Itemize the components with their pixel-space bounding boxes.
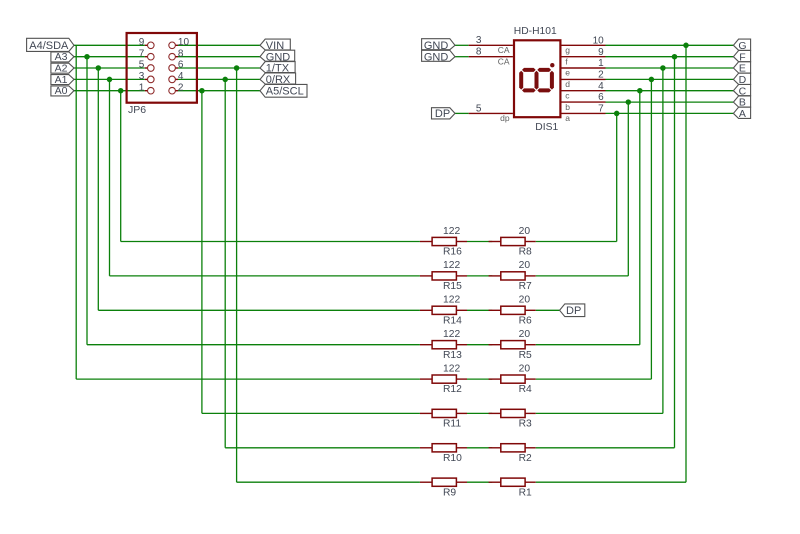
svg-text:10: 10 [593,35,605,46]
wire net E from DIS1 to label [606,67,734,69]
wire net G from DIS1 to label [606,44,734,46]
JP6 pin 10 pad [169,42,176,49]
wire net A1 vertical [109,79,111,276]
svg-text:7: 7 [598,104,604,115]
svg-text:R9: R9 [443,487,456,498]
resistor R14 left stub [420,309,432,311]
wire net A1 to resistor row [110,275,420,277]
wire net A5/SCL to resistor row [202,412,420,414]
svg-text:122: 122 [443,295,460,306]
svg-text:R15: R15 [443,281,462,292]
svg-text:R2: R2 [519,453,532,464]
JP6 pin 6 pad [169,65,176,72]
wire net 1/TX vertical [236,68,238,482]
svg-text:7: 7 [139,48,145,59]
svg-text:A1: A1 [55,74,68,86]
junction net A0 [118,88,124,94]
svg-text:R3: R3 [519,419,532,430]
svg-text:20: 20 [519,260,531,271]
JP6 pin 4 stub [175,78,178,80]
svg-text:DIS1: DIS1 [535,122,558,133]
JP6 pin 10 stub [175,44,178,46]
wire net F from DIS1 to label [606,56,734,58]
resistor R5 left stub [489,344,501,346]
resistor R6 body [501,306,525,314]
wire between resistor pair row 4 [467,344,492,346]
svg-text:d: d [565,79,570,89]
wire net C from DIS1 to label [606,90,734,92]
junction net A [614,111,620,117]
junction net A2 [96,65,102,71]
resistor R13 right stub [456,344,467,346]
resistor R3 left stub [489,412,501,414]
wire net A3 to resistor row [87,344,420,346]
resistor R10 left stub [420,447,432,449]
JP6 pin 3 pad [148,76,155,83]
wire net DP to DIS1 pin 5 [455,112,469,114]
svg-text:R14: R14 [443,315,462,326]
resistor R8 left stub [489,241,501,243]
resistor R5 right stub [525,344,536,346]
JP6 pin 1 stub [145,90,148,92]
wire net A to resistor row [536,241,617,243]
svg-text:R1: R1 [519,487,532,498]
junction net A1 [107,77,113,83]
resistor R7 left stub [489,275,501,277]
junction net E [660,65,666,71]
svg-text:A5/SCL: A5/SCL [266,85,304,97]
svg-text:10: 10 [178,37,190,48]
resistor R9 body [432,478,456,486]
svg-text:122: 122 [443,363,460,374]
junction net B [626,99,632,105]
svg-text:6: 6 [178,60,184,71]
svg-text:20: 20 [519,329,531,340]
JP6 pin 9 pad [148,42,155,49]
svg-text:g: g [565,45,570,55]
wire net GND from JP6 [178,56,260,58]
resistor R15 body [432,272,456,280]
svg-text:JP6: JP6 [128,104,146,116]
svg-text:R16: R16 [443,247,462,258]
resistor R3 right stub [525,412,536,414]
resistor R15 right stub [456,275,467,277]
wire net D from DIS1 to label [606,78,734,80]
resistor R2 body [501,444,525,452]
svg-text:4: 4 [178,71,184,82]
wire net F to resistor row [536,447,675,449]
wire net D to resistor row [536,378,652,380]
DIS1 pin 9 stub [562,56,606,58]
label A5/SCL [260,84,307,97]
junction net 0/RX [222,77,228,83]
resistor R14 right stub [456,309,467,311]
resistor R16 right stub [456,241,467,243]
JP6 pin 5 stub [145,67,148,69]
junction net D [649,77,655,83]
wire net C to resistor row [536,344,640,346]
label 0/RX [260,73,296,84]
svg-text:GND: GND [424,51,449,63]
resistor R3 body [501,409,525,417]
svg-text:3: 3 [139,71,145,82]
wire net 0/RX from JP6 [178,78,260,80]
label VIN [260,39,290,50]
svg-text:R6: R6 [519,315,532,326]
svg-text:HD-H101: HD-H101 [514,26,557,37]
resistor R11 left stub [420,412,432,414]
label DP at DIS1 pin 5 [432,108,456,119]
wire net G vertical [685,45,687,482]
svg-text:R10: R10 [443,453,462,464]
wire between resistor pair row 1 [467,241,492,243]
resistor R4 body [501,375,525,383]
wire net F vertical [674,57,676,448]
junction net G [683,43,689,49]
wire between resistor pair row 6 [467,412,492,414]
wire net B from DIS1 to label [606,101,734,103]
wire net 0/RX to resistor row [225,447,420,449]
svg-text:20: 20 [519,295,531,306]
resistor R13 body [432,341,456,349]
JP6 pin 2 stub [175,90,178,92]
wire net C vertical [639,91,641,345]
svg-text:20: 20 [519,363,531,374]
label D [733,73,750,84]
resistor R13 left stub [420,344,432,346]
svg-text:3: 3 [476,35,482,46]
wire net A0 horizontal to JP6 [74,90,145,92]
svg-text:A0: A0 [55,85,68,97]
svg-text:R4: R4 [519,384,532,395]
wire between resistor pair row 7 [467,447,492,449]
svg-text:CA: CA [498,56,510,66]
wire net GND to DIS1 pin 8 [455,56,469,58]
svg-text:A: A [739,108,746,120]
resistor R6 left stub [489,309,501,311]
svg-text:8: 8 [178,48,184,59]
resistor R4 right stub [525,378,536,380]
svg-text:c: c [565,90,570,100]
resistor R5 body [501,341,525,349]
resistor R16 left stub [420,241,432,243]
wire net E vertical [662,68,664,413]
resistor R4 left stub [489,378,501,380]
wire net E to resistor row [536,412,663,414]
svg-text:1: 1 [139,82,145,93]
resistor R2 right stub [525,447,536,449]
svg-text:R8: R8 [519,247,532,258]
svg-text:20: 20 [519,226,531,237]
resistor R6 right stub [525,309,536,311]
JP6 pin 5 pad [148,65,155,72]
wire net DP to DP label [536,309,560,311]
wire net B vertical [627,102,629,276]
svg-text:1: 1 [598,58,604,69]
svg-text:9: 9 [598,47,604,58]
junction net 1/TX [234,65,240,71]
svg-text:e: e [565,68,570,78]
svg-text:CA: CA [498,45,510,55]
label GND at DIS1 pin 8 [422,50,455,61]
svg-text:122: 122 [443,329,460,340]
resistor R8 right stub [525,241,536,243]
svg-text:A2: A2 [55,62,68,74]
svg-text:R11: R11 [443,419,461,430]
JP6 pin 6 stub [175,67,178,69]
DIS1 pin 10 stub [562,44,606,46]
svg-text:5: 5 [476,103,482,114]
wire net 1/TX to resistor row [237,481,420,483]
label GND [260,50,295,61]
label B [733,96,750,107]
wire net A4/SDA vertical [75,45,77,379]
resistor R16 body [432,237,456,245]
wire net B to resistor row [536,275,629,277]
wire net A3 vertical [86,57,88,345]
svg-text:R12: R12 [443,384,462,395]
resistor R14 body [432,306,456,314]
JP6 pin 3 stub [145,78,148,80]
JP6 pin 9 stub [145,44,148,46]
wire net A from DIS1 to label [606,112,734,114]
label A4/SDA [27,38,74,51]
DIS1 pin 8 stub [469,56,513,58]
JP6 pin 7 pad [148,53,155,60]
wire net A0 vertical [120,91,122,242]
label E [733,62,750,73]
wire between resistor pair row 2 [467,275,492,277]
JP6 pin 8 stub [175,56,178,58]
label DP at resistor R6 [560,304,585,317]
svg-text:a: a [565,113,570,123]
svg-text:9: 9 [139,37,145,48]
DIS1 pin 3 stub [469,44,513,46]
wire net A1 horizontal to JP6 [74,78,145,80]
DIS1 pin 7 stub [562,112,606,114]
wire net A3 horizontal to JP6 [74,56,145,58]
label GND at DIS1 pin 3 [422,39,455,50]
svg-text:R13: R13 [443,350,462,361]
resistor R2 left stub [489,447,501,449]
DIS1 pin 6 stub [562,101,606,103]
display DIS1 decimal point dot [550,63,554,67]
DIS1 pin 4 stub [562,90,606,92]
wire net G to resistor row [536,481,686,483]
resistor R12 right stub [456,378,467,380]
label A2 [51,63,74,73]
JP6 pin 1 pad [148,87,155,94]
label C [733,85,750,96]
JP6 pin 4 pad [169,76,176,83]
svg-text:R7: R7 [519,281,532,292]
label A [733,107,750,118]
svg-text:4: 4 [598,81,604,92]
wire net 0/RX vertical [224,79,226,447]
junction net C [637,88,643,94]
junction net A5/SCL [199,88,205,94]
junction net F [672,54,678,60]
resistor R10 right stub [456,447,467,449]
resistor R11 body [432,409,456,417]
wire net A5/SCL vertical [201,91,203,414]
wire net A vertical [616,113,618,241]
svg-text:122: 122 [443,226,460,237]
resistor R1 left stub [489,481,501,483]
svg-text:R5: R5 [519,350,532,361]
resistor R7 body [501,272,525,280]
wire net A2 horizontal to JP6 [74,67,145,69]
svg-text:b: b [565,102,570,112]
svg-text:DP: DP [435,108,450,120]
label F [733,51,750,62]
resistor R1 right stub [525,481,536,483]
label A1 [51,75,74,85]
junction net A3 [84,54,90,60]
resistor R1 body [501,478,525,486]
wire net D vertical [650,79,652,379]
label G [733,39,750,50]
resistor R8 body [501,237,525,245]
connector JP6 body [127,33,197,103]
label A0 [51,86,74,96]
wire net A2 to resistor row [98,309,420,311]
display DIS1 seven-segment digit graphic [519,68,554,93]
wire net A0 to resistor row [121,241,420,243]
wire net GND to DIS1 pin 3 [455,44,469,46]
resistor R10 body [432,444,456,452]
resistor R15 left stub [420,275,432,277]
resistor R9 right stub [456,481,467,483]
JP6 pin 2 pad [169,87,176,94]
svg-text:6: 6 [598,92,604,103]
wire net 1/TX from JP6 [178,67,260,69]
JP6 pin 7 stub [145,56,148,58]
DIS1 pin 5 stub [469,112,513,114]
display DIS1 body [514,40,560,117]
svg-text:2: 2 [178,82,184,93]
wire between resistor pair row 8 [467,481,492,483]
svg-text:DP: DP [566,305,581,317]
DIS1 pin 1 stub [562,67,606,69]
wire net A5/SCL from JP6 [178,90,260,92]
svg-text:dp: dp [500,113,510,123]
svg-text:8: 8 [476,47,482,58]
DIS1 pin 2 stub [562,78,606,80]
wire net A4/SDA to resistor row [76,378,420,380]
label 1/TX [260,62,295,73]
resistor R9 left stub [420,481,432,483]
wire net VIN from JP6 [178,44,260,46]
svg-text:A3: A3 [55,51,68,63]
svg-text:122: 122 [443,260,460,271]
wire net A4/SDA horizontal to JP6 [74,44,145,46]
JP6 pin 8 pad [169,53,176,60]
svg-text:5: 5 [139,60,145,71]
resistor R11 right stub [456,412,467,414]
label A3 [51,52,74,62]
wire between resistor pair row 5 [467,378,492,380]
resistor R7 right stub [525,275,536,277]
svg-text:2: 2 [598,70,604,81]
wire net A2 vertical [97,68,99,310]
resistor R12 left stub [420,378,432,380]
resistor R12 body [432,375,456,383]
wire between resistor pair row 3 [467,309,492,311]
